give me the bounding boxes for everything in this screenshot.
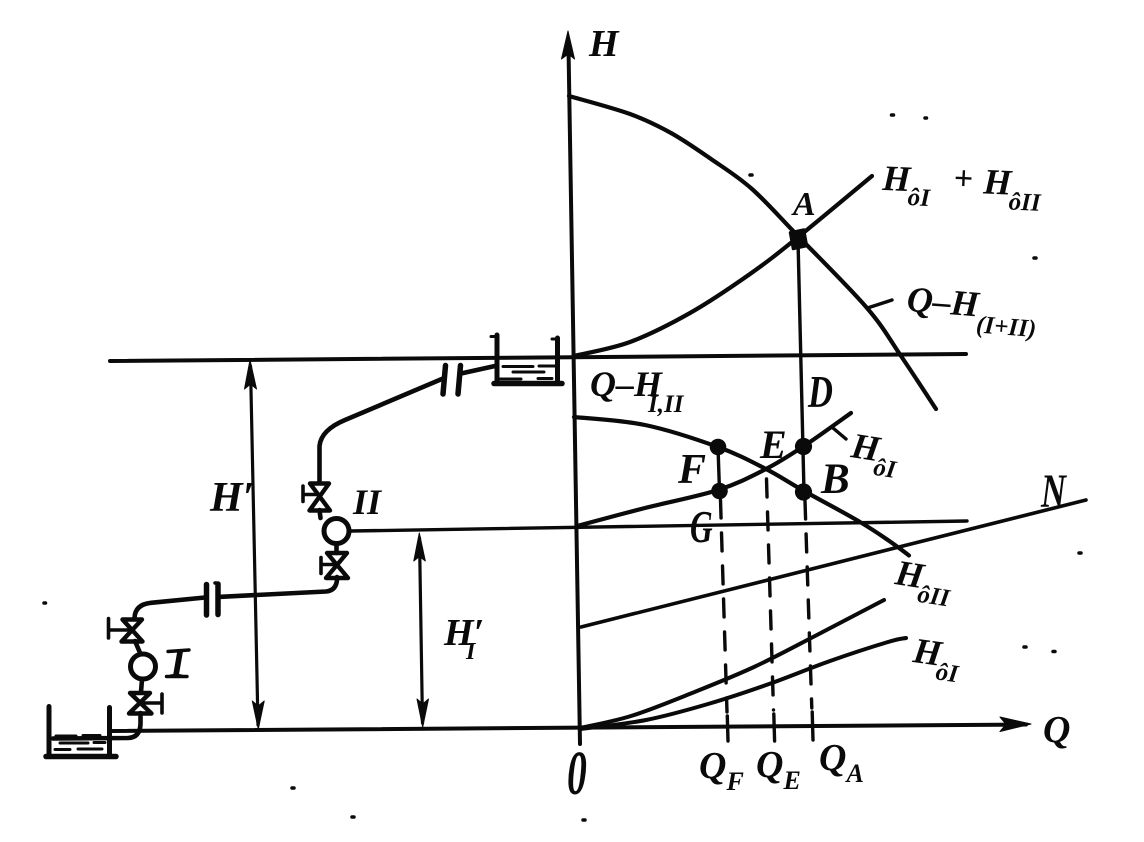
pump II circle (324, 519, 349, 544)
upper water-level line (110, 354, 966, 361)
H-prime-I down arrowhead (417, 699, 429, 727)
curve H_oI from origin (581, 638, 906, 729)
svg-text:G: G (690, 501, 713, 552)
flange union bars (upper pipe) (443, 366, 461, 395)
curve H_oII from origin (580, 600, 884, 728)
scan specks (44, 115, 1081, 820)
upper tank water hatching (500, 366, 555, 379)
svg-text:QA: QA (819, 737, 864, 788)
vertical line A-D-B (798, 240, 804, 492)
valve V2 stem and handle (321, 558, 337, 574)
H-prime down arrowhead (252, 701, 264, 729)
curve H_oI+H_oII combined resistance (574, 176, 873, 356)
label H_oII (lower) (890, 552, 957, 613)
svg-text:H′: H′ (443, 612, 484, 654)
label H_oI + H_oII (top) (880, 157, 1043, 217)
H axis (569, 48, 581, 744)
svg-text:D: D (807, 366, 833, 417)
svg-text:N: N (1040, 466, 1067, 519)
leader tick to H_oI label (833, 428, 846, 439)
leader tick to Q-H(I+II) label (869, 300, 892, 308)
point A marker (790, 230, 807, 250)
valve V3 (above pump I) bowtie (122, 620, 143, 642)
svg-text:F: F (677, 447, 706, 493)
pipe upper tank to flange (slanted) (461, 366, 495, 374)
svg-text:Q–H: Q–H (905, 279, 981, 325)
dashed line Q_E (767, 479, 774, 710)
upper tank walls and bottom (495, 335, 500, 381)
dashed line Q_F (721, 500, 728, 712)
svg-text:ôII: ôII (916, 581, 953, 613)
label H_oI (bottom) (908, 630, 964, 688)
svg-text:0: 0 (567, 740, 587, 808)
valve V4 (below pump I) bowtie (129, 693, 152, 714)
Q axis arrowhead (1000, 717, 1031, 732)
H-prime up arrowhead (245, 360, 257, 389)
svg-text:QE: QE (756, 744, 801, 795)
svg-text:A: A (791, 186, 816, 223)
valve V1 stem and handle (303, 486, 319, 502)
svg-text:(I+II): (I+II) (975, 311, 1037, 343)
pipe pump I to valve4 (141, 680, 142, 693)
pump I circle (131, 654, 156, 679)
valve V4 stem and handle (141, 694, 162, 713)
svg-text:II: II (352, 482, 383, 522)
pipe valve1 to pump II (320, 510, 321, 518)
curve Q-H I,II single pump curve (574, 417, 909, 556)
pump II discharge line (through G) (351, 521, 967, 531)
valve V1 (above pump II) bowtie (310, 484, 331, 511)
pipe valve3 to pump I (135, 641, 141, 654)
svg-text:H: H (588, 23, 620, 65)
lower tank water hatching (55, 736, 105, 750)
label Q-H(I+II) (904, 279, 1039, 343)
pipe flange to bend to valve1 (320, 379, 444, 484)
F connector vertical (718, 447, 720, 491)
pipe valve2 down, bend, slanted run to flange2 (221, 577, 337, 597)
curve Q-H(I+II) combined pump curve (569, 96, 936, 409)
line N (581, 500, 1086, 627)
point on H_oI at Q_A (above B) dot (795, 438, 812, 455)
svg-text:H′: H′ (209, 475, 254, 521)
point B dot (795, 483, 812, 500)
pipe pump II to valve2 (334, 544, 339, 553)
curve H_oI raised resistance through F,E (577, 413, 851, 526)
H-prime-I up arrowhead (414, 533, 426, 561)
point F lower dot (711, 483, 728, 500)
suction pipe valve4 down bend into tank (53, 713, 141, 739)
svg-text:ôI: ôI (934, 658, 961, 688)
lower tank walls and bottom (47, 707, 52, 757)
Q axis (baseline) (112, 725, 1026, 732)
svg-text:I,II: I,II (647, 391, 685, 418)
pipe flange2 to bend to valve3 (135, 598, 206, 619)
svg-text:QF: QF (699, 745, 744, 796)
label H_oI (mid) (846, 425, 903, 484)
upper tank wall top caps (491, 337, 558, 340)
svg-text:B: B (820, 456, 850, 503)
dashed line Q_A (805, 501, 812, 708)
flange union bars (middle pipe) (207, 584, 219, 615)
H-prime-I dimension line (420, 538, 423, 723)
svg-text:+: + (953, 160, 974, 198)
H-prime dimension line (251, 366, 259, 725)
svg-text:ôI: ôI (907, 184, 932, 212)
svg-text:I: I (169, 640, 187, 685)
svg-text:E: E (759, 422, 787, 467)
svg-text:ôII: ôII (1008, 188, 1042, 216)
valve V3 stem and handle (109, 619, 133, 639)
valve V2 (below pump II) bowtie (326, 553, 348, 578)
svg-text:I: I (465, 639, 477, 665)
H axis arrowhead (562, 31, 575, 59)
point F upper dot (710, 439, 727, 456)
svg-text:Q: Q (1043, 709, 1070, 751)
svg-text:ôI: ôI (872, 454, 899, 484)
